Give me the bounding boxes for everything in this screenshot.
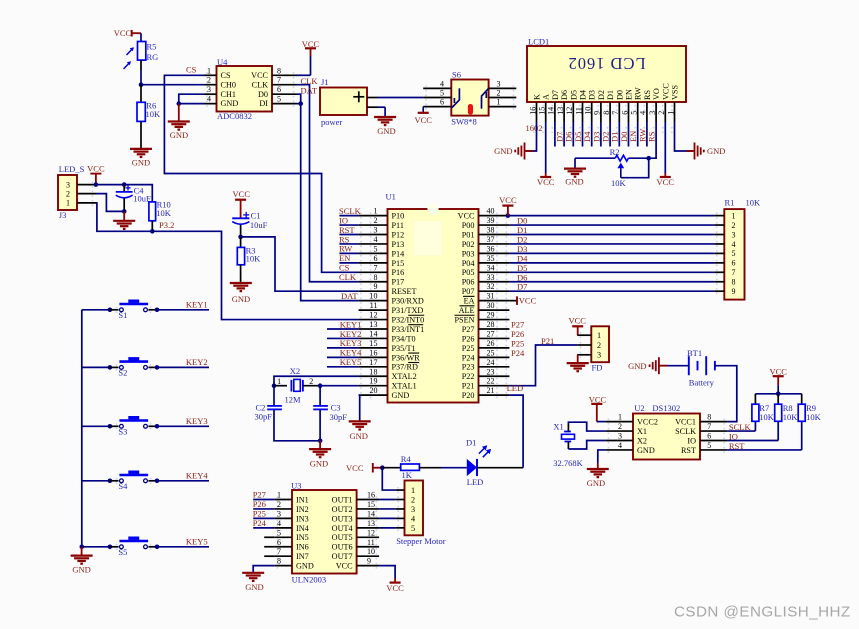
svg-text:GND: GND [637,446,655,455]
wire P21 (U1 pin22 to FD.2) [509,345,577,386]
net label P26 (U1) [511,329,524,339]
power symbol VCC (LCD A) [537,173,555,187]
capacitor C1 10uF [232,210,267,230]
svg-text:10K: 10K [806,412,822,422]
svg-text:1: 1 [66,199,70,208]
svg-text:VCC: VCC [458,212,475,221]
switch S4 (push button) [82,471,209,492]
net label D4 [517,253,528,263]
svg-text:5: 5 [630,111,639,115]
net label D7 [517,282,527,292]
wire [675,122,694,151]
svg-text:14: 14 [547,107,556,115]
svg-text:3: 3 [597,351,601,360]
wire [379,508,396,510]
svg-text:12: 12 [370,311,378,320]
pin Stepper.5 [396,527,405,529]
svg-text:P12: P12 [392,230,405,239]
svg-text:S2: S2 [118,368,127,378]
pin LCD1.15 (A) [538,102,547,122]
svg-text:2: 2 [732,221,736,230]
svg-text:13: 13 [370,320,378,329]
svg-text:KEY2: KEY2 [186,357,208,367]
svg-text:P31/TXD: P31/TXD [392,306,424,315]
svg-text:VCC: VCC [114,28,132,38]
switch S6 SW8*8 [451,70,488,127]
svg-text:23: 23 [487,367,495,376]
svg-text:35: 35 [487,254,495,263]
svg-text:2: 2 [309,377,313,386]
svg-text:3: 3 [66,180,70,189]
svg-text:SW8*8: SW8*8 [451,116,477,126]
potentiometer R2 10K [610,147,649,188]
net label P27 (U1) [511,320,524,330]
svg-text:R2: R2 [610,147,620,157]
ground (FD) [567,363,589,371]
svg-text:P22: P22 [462,372,475,381]
net label EN (LCD) [628,122,638,147]
wire VCC (U1 pin40 to R1.1) [509,215,714,217]
svg-text:3: 3 [411,505,415,514]
pin U1.30 [479,301,510,310]
svg-text:OUT7: OUT7 [332,552,353,561]
pin LCD1.13 (D6) [556,102,565,122]
svg-text:DS1302: DS1302 [652,403,680,413]
net label D5 [517,263,527,273]
svg-text:38: 38 [487,226,495,235]
crystal X1 32.768K [553,422,583,469]
net label IO (U1) [339,215,359,225]
node X2.2 [318,383,323,388]
pin R1.3 [714,234,724,236]
net label P25 (U1) [511,338,524,348]
svg-text:GND: GND [245,582,263,592]
wire [359,395,360,421]
wire [253,566,275,573]
net label DAT (U1) [341,291,358,301]
svg-text:5: 5 [440,89,444,98]
svg-text:CLK: CLK [339,272,357,282]
net label D1 [517,225,527,235]
svg-text:3: 3 [374,226,378,235]
svg-text:PSEN: PSEN [454,315,474,324]
wire XTAL2 [274,376,359,385]
pin U2.4 [606,441,633,450]
resistor R7 [752,394,775,422]
svg-text:VCC: VCC [87,164,105,174]
pin S6.4 [423,79,451,88]
svg-text:EA: EA [464,297,475,306]
svg-text:26: 26 [487,339,495,348]
svg-text:10K: 10K [146,109,162,119]
svg-text:RW: RW [634,87,643,100]
pin U1.9 [359,282,388,291]
power symbol VCC (R7-R9) [769,366,787,394]
led D1 [466,437,491,487]
net label D2 [517,234,527,244]
svg-text:P36/WR: P36/WR [392,353,421,362]
pin J3.3 [77,184,96,186]
ground (U3) [242,573,264,592]
pin R1.5 [714,252,724,254]
pin U3.5 [275,528,292,537]
wire [379,499,396,501]
svg-text:GND: GND [132,158,150,168]
svg-text:P00: P00 [462,221,475,230]
wire [240,265,242,283]
svg-text:P24: P24 [462,353,475,362]
svg-text:P14: P14 [392,249,405,258]
svg-text:R1: R1 [725,198,735,208]
svg-text:RST: RST [681,446,696,455]
svg-text:VCC: VCC [537,177,555,187]
wire [379,566,395,578]
svg-text:9: 9 [367,557,371,566]
svg-text:GND: GND [310,458,328,468]
pin U1.33 [479,273,510,282]
pin U1.5 [359,244,388,253]
wire D3 [509,252,714,254]
svg-text:5: 5 [411,524,415,533]
svg-text:4: 4 [277,519,281,528]
svg-text:P04: P04 [462,259,475,268]
svg-text:RESET: RESET [392,287,417,296]
svg-text:P30/RXD: P30/RXD [392,297,424,306]
pin LCD1.16 (K) [528,102,537,122]
ground (C4) [113,211,135,229]
svg-text:X1: X1 [637,427,647,436]
connector J1 power [320,77,367,127]
pin U3.4 [275,519,292,528]
svg-text:32.768K: 32.768K [553,458,583,468]
wire (battery to U2 VCC1) [715,366,737,422]
pin U3.8 [275,557,292,566]
pin U1.21 [479,386,510,395]
ic LCD1 LCD 1602 [527,37,686,103]
pin R1.2 [714,224,724,226]
svg-text:P20: P20 [462,391,475,400]
pin J1.1 [367,97,378,99]
pin LCD1.14 (D7) [547,102,556,122]
svg-text:D1: D1 [466,437,476,447]
svg-text:S6: S6 [452,70,461,80]
switch S5 (push button) [82,537,209,558]
svg-text:LED: LED [467,477,484,487]
svg-text:3: 3 [497,79,501,88]
net label P24 (U3) [253,518,275,528]
pin R1.7 [714,271,724,273]
svg-text:10K: 10K [783,412,799,422]
node DI/DAT [298,101,303,106]
svg-text:IN5: IN5 [296,533,309,542]
resistor R5 (photoresistor) [124,42,159,70]
svg-text:KEY3: KEY3 [186,416,208,426]
net label D6 [517,272,527,282]
svg-text:40: 40 [487,207,495,216]
svg-text:4: 4 [411,514,415,523]
svg-text:1K: 1K [402,470,413,480]
svg-text:4: 4 [618,441,622,450]
net label P25 (U3) [253,508,275,518]
wire LED (U1 pin21 to D1) [509,395,523,468]
pin U3.14 [357,509,380,518]
net label RS (LCD) [647,122,657,147]
power symbol VCC (J3) [87,164,105,185]
svg-text:P27: P27 [462,325,475,334]
svg-text:P02: P02 [462,240,475,249]
svg-text:D7: D7 [517,282,527,292]
svg-text:VCC: VCC [414,115,432,125]
node CH1/GND [177,101,182,106]
node C4/GND/J3.2 [122,209,127,214]
wire VO [628,122,656,158]
svg-text:X2: X2 [290,366,300,376]
pin U1.17 [359,358,388,367]
svg-text:VCC: VCC [499,195,517,205]
pin LCD1.5 (RW) [630,102,639,122]
svg-text:7: 7 [732,268,736,277]
svg-text:10: 10 [584,107,593,115]
svg-text:3: 3 [732,230,736,239]
svg-text:25: 25 [487,348,495,357]
pin S6.6 [423,98,451,107]
wire [661,365,689,367]
pin U1.4 [359,235,388,244]
wire DAT (U4 pin6/5 to U1 pin10) [297,94,359,300]
pin LCD1.2 (VCC) [657,102,666,122]
svg-text:P24: P24 [253,518,267,528]
svg-text:1602: 1602 [526,123,543,133]
pin U1.25 [479,348,510,357]
svg-text:FD: FD [592,363,603,373]
wire [273,386,275,406]
svg-text:U4: U4 [217,57,228,67]
svg-text:19: 19 [370,377,378,386]
svg-text:VCC: VCC [386,583,404,593]
ground (R2) [564,169,586,187]
svg-text:KEY5: KEY5 [340,357,362,367]
pin R1.1 [714,215,724,217]
svg-text:IN6: IN6 [296,543,309,552]
svg-text:IN7: IN7 [296,552,309,561]
svg-text:DAT: DAT [341,291,358,301]
wire X1 top [568,422,605,431]
pin U2.8 [700,413,727,422]
ground (LCD K) [494,143,533,160]
svg-text:4: 4 [639,111,648,115]
svg-text:P25: P25 [462,344,475,353]
svg-text:2: 2 [497,89,501,98]
wire [319,409,321,440]
capacitor C4 10uF [116,185,151,204]
pin U1.14 [359,329,388,338]
net label KEY2 (U1) [327,329,361,339]
svg-text:P10: P10 [392,212,405,221]
node reset junction [238,235,243,240]
svg-text:8: 8 [602,111,611,115]
ground (battery) [628,357,667,374]
pin U3.2 [275,500,292,509]
wire [240,225,242,237]
pin LCD1.4 (RS) [639,102,648,122]
svg-text:IO: IO [687,436,696,445]
net label KEY3 [186,416,208,426]
svg-text:S1: S1 [118,310,127,320]
svg-text:GND: GND [349,431,367,441]
svg-text:GND: GND [707,146,725,156]
svg-text:CH0: CH0 [221,80,236,89]
svg-text:P07: P07 [462,287,475,296]
svg-text:IN3: IN3 [296,514,309,523]
svg-text:CH1: CH1 [221,90,236,99]
wire [575,158,615,168]
crystal X2 12M [274,366,320,405]
svg-text:6: 6 [620,111,629,115]
wire SCLK [727,421,755,431]
svg-text:P21: P21 [462,382,475,391]
power symbol VCC (FD) [568,316,586,336]
net label RS (U1) [339,234,359,244]
pin U1.39 [479,216,510,225]
power symbol VCC (U2) [589,395,607,405]
pin LCD1.3 (VO) [648,102,657,122]
svg-text:P32/INT0: P32/INT0 [392,315,425,324]
svg-text:D1: D1 [606,90,615,100]
power symbol VCC (S6) [414,107,432,125]
pin U3.9 [357,557,380,566]
svg-text:LED_S: LED_S [59,164,85,174]
svg-text:RS: RS [647,131,657,142]
net label 1602 [526,123,543,133]
wire [240,200,242,219]
pin U2.7 [700,422,727,431]
wire RST [727,421,801,450]
node R5/R6/CH0 [139,82,144,87]
capacitor C2 30pF [255,402,282,421]
wire [382,467,400,469]
net label D3 (LCD) [591,122,601,147]
svg-text:P01: P01 [462,230,475,239]
node R2 wiper junction [646,156,651,161]
svg-text:16: 16 [367,491,375,500]
node C4 tap [122,182,127,187]
svg-text:D7: D7 [551,90,560,100]
net label CS (U1) [339,263,350,273]
wire [297,56,311,75]
svg-text:2: 2 [207,76,211,85]
svg-text:17: 17 [370,358,378,367]
ground (R6) [130,149,152,168]
pin U1.16 [359,348,388,357]
pin FD.3 [577,354,591,356]
svg-text:18: 18 [370,367,378,376]
pin Stepper.1 [396,489,405,491]
wire [378,107,386,117]
svg-text:7: 7 [374,263,378,272]
ground (J1) [374,117,396,136]
svg-text:2: 2 [657,111,666,115]
battery BT1 [687,348,715,388]
svg-text:3: 3 [618,432,622,441]
svg-text:VCC: VCC [519,295,537,305]
svg-text:3: 3 [277,509,281,518]
svg-text:P05: P05 [462,268,475,277]
svg-text:VCC: VCC [302,39,320,49]
pin U4.5 [272,95,297,104]
net label KEY1 [186,300,208,310]
net label CLK (U1) [339,272,357,282]
svg-text:VCC: VCC [661,83,670,100]
svg-text:U1: U1 [386,192,396,202]
wire [545,122,547,173]
wire [140,121,142,148]
svg-text:1: 1 [497,98,501,107]
svg-text:VCC: VCC [251,71,268,80]
pin U1.35 [479,254,510,263]
svg-text:15: 15 [538,107,547,115]
wire IO [727,421,778,440]
resistor R8 [775,394,799,422]
svg-text:9: 9 [593,111,602,115]
svg-text:20: 20 [370,386,378,395]
wire (J1 to S6.5) [378,97,424,99]
svg-text:DAT: DAT [301,85,318,95]
connector FD [591,326,609,372]
svg-text:10: 10 [370,292,378,301]
pin U1.1 [359,207,388,216]
pin U1.37 [479,235,510,244]
svg-text:9: 9 [732,287,736,296]
svg-text:U3: U3 [291,480,301,490]
svg-text:P3.2: P3.2 [159,220,174,230]
svg-text:OUT1: OUT1 [332,495,353,504]
wire X1 bottom [568,441,605,450]
net label RW (U1) [339,244,359,254]
wire [477,467,523,469]
wire [319,386,321,406]
net label D4 (LCD) [582,122,592,147]
pin S6.1 [489,98,517,107]
pin Stepper.3 [396,508,405,510]
pin U1.11 [359,301,388,310]
ic U3 ULN2003 [291,480,357,584]
svg-text:X2: X2 [637,436,647,445]
svg-text:IN4: IN4 [296,524,309,533]
svg-text:6: 6 [707,432,711,441]
svg-text:OUT3: OUT3 [332,514,353,523]
net label LED (U1) [507,383,524,393]
svg-text:5: 5 [732,249,736,258]
wire [179,103,205,105]
wire [264,555,275,557]
net label D0 (LCD) [619,122,629,147]
net label KEY3 (U1) [327,338,361,348]
pin LCD1.6 (EN) [620,102,629,122]
pin LCD1.9 (D2) [593,102,602,122]
wire CH1 [179,94,205,103]
svg-text:12M: 12M [285,395,302,405]
svg-text:P35/T1: P35/T1 [392,344,416,353]
svg-text:7: 7 [277,547,281,556]
net label P3.2 [159,220,174,230]
svg-text:13: 13 [556,107,565,115]
wire D0 [509,224,714,226]
pin U3.7 [275,547,292,556]
wire [264,546,275,548]
node key bus/GND [80,545,85,550]
pin Stepper.2 [396,499,405,501]
svg-text:2: 2 [66,189,70,198]
